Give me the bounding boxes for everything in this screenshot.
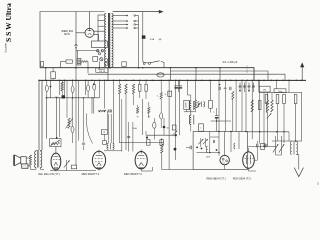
junction dot C5	[93, 83, 95, 85]
junction bus2 d31	[241, 80, 242, 81]
svg-text:Superhet: Superhet	[5, 42, 8, 52]
capacitor C11	[218, 87, 220, 90]
resistor R12 zig	[132, 84, 134, 94]
wire V1 heater lead	[94, 30, 105, 32]
svg-text:x: x	[214, 112, 215, 114]
fuse F3 oval	[153, 122, 156, 128]
wire bus1	[40, 68, 254, 81]
junction bus2 d9	[99, 80, 100, 81]
resistor R24 zig	[266, 100, 268, 112]
resistor R3 zig	[61, 82, 63, 91]
wire drop x283 lower	[283, 104, 285, 144]
wire drop x50	[50, 80, 52, 97]
junction bus1 d6	[142, 67, 144, 69]
resistor R1 box	[66, 60, 72, 63]
junction dot m3	[245, 131, 247, 133]
wire drop x246	[245, 80, 247, 131]
capacitor C9	[189, 146, 191, 150]
wire V4 bottom	[141, 170, 152, 172]
box B7 pm	[199, 124, 204, 131]
wire hline y92.5	[259, 92, 302, 94]
trimmer arrow V2 cathode	[64, 160, 70, 167]
capacitor C18	[256, 144, 258, 148]
junction bus2 d34	[258, 80, 259, 81]
wire hline y121	[211, 120, 232, 122]
box B3 selector	[93, 57, 98, 62]
junction bus2 d7	[85, 80, 86, 81]
capacitor C19	[265, 144, 267, 148]
transformer T6 core	[37, 151, 39, 168]
resistor R33 box	[258, 101, 261, 110]
svg-text:60 W: 60 W	[64, 33, 70, 36]
trimmer arrow O1	[198, 139, 203, 144]
wire drop x264 long	[263, 93, 265, 147]
wire T1 tap 1	[113, 15, 127, 17]
wire drop x179	[179, 80, 181, 135]
wire bus1-bus2 link x196	[195, 68, 197, 75]
svg-text:100Ω: 100Ω	[132, 127, 137, 130]
wire V1 cathode to bus	[75, 48, 77, 68]
wire V1 heater lead 2	[94, 35, 99, 41]
wire drop x99	[99, 80, 101, 97]
capacitor C12	[229, 87, 231, 90]
wire selector stub	[99, 62, 101, 68]
wire osc v1	[209, 132, 211, 147]
wire TKI drop a	[257, 80, 259, 86]
box B8	[261, 143, 265, 149]
wire V3 bottom	[77, 170, 96, 172]
trimmer arrow C21	[279, 144, 284, 153]
junction bus2 d29	[230, 80, 231, 81]
trimmer C14	[239, 83, 241, 93]
wire x289 drop	[288, 132, 290, 141]
resistor R14 box	[145, 84, 147, 91]
junction bus2 d26	[209, 80, 210, 81]
junction bus2 d19	[160, 80, 161, 81]
resistor R20 value box	[184, 100, 189, 109]
junction bus1 d8	[195, 67, 197, 69]
junction bus1 d9	[219, 67, 221, 69]
selector contact S2b	[134, 20, 136, 22]
junction bus2 d5	[72, 80, 73, 81]
junction dot O5	[216, 149, 218, 151]
wire T1 tap 2	[113, 20, 127, 22]
wire T1 primary tap b	[98, 20, 104, 22]
junction bus2 d10	[104, 80, 105, 81]
arrow earth down	[294, 168, 303, 177]
svg-text:S S W Ultra: S S W Ultra	[4, 3, 13, 42]
wire V2 bottom	[44, 168, 56, 170]
wire speaker feed a	[38, 80, 40, 150]
wire V5 bottom	[224, 165, 226, 170]
wire L2 stub	[87, 68, 89, 74]
junction bus1 d7	[170, 67, 172, 69]
wire osc v3	[230, 132, 232, 153]
resistor R23 zig	[232, 92, 234, 100]
resistor R30 corner	[41, 62, 44, 67]
wire V1 grid lead	[76, 32, 85, 34]
wire drop x259 long	[259, 80, 261, 143]
tube V3 pentode	[92, 151, 105, 169]
tube V5 osc triode	[220, 155, 229, 164]
resistor R25 zig	[271, 100, 273, 112]
trimmer C17	[253, 83, 255, 93]
junction dot m2	[230, 131, 232, 133]
capacitor C24	[82, 142, 85, 144]
wire drop x72 lower	[71, 98, 73, 127]
box B2 filter	[92, 41, 108, 48]
wire V6 bottom stub	[249, 170, 257, 172]
wire x121 upper	[121, 99, 123, 140]
box TKI2	[274, 89, 286, 93]
wire L3 nest	[195, 74, 197, 80]
wire x76 to R9	[75, 80, 77, 165]
wire osc h1	[197, 152, 220, 154]
selector contact S2d	[134, 27, 136, 29]
svg-text:RES 3604/T7.2: RES 3604/T7.2	[82, 172, 100, 176]
junction bus2 d15	[133, 80, 134, 81]
svg-text:TKI: TKI	[263, 90, 267, 92]
resistor R26 box	[265, 95, 268, 104]
tube V1 REN904 rectifier	[85, 28, 94, 37]
wire drop x252	[251, 80, 253, 139]
junction bus2 d32	[247, 80, 248, 81]
wire drop x187	[187, 80, 189, 95]
junction bus1 d5	[138, 67, 140, 69]
wire osc h2	[210, 136, 219, 138]
coil L10 osc	[206, 146, 207, 152]
junction bus1 d2	[87, 67, 89, 69]
junction bus2 d6	[75, 80, 76, 81]
svg-text:REN NBO4 (T7.): REN NBO4 (T7.)	[206, 176, 226, 180]
resistor R10 zig	[119, 84, 121, 94]
trimmer arrow R5	[66, 119, 73, 129]
tube V6 rect output	[243, 152, 255, 168]
resistor R21 zig	[194, 100, 196, 109]
svg-text:Anl. 2 400 µF: Anl. 2 400 µF	[223, 61, 238, 64]
trimmer arrow O2	[203, 139, 208, 144]
capacitor C6 tubular	[71, 126, 74, 132]
svg-text:REN 3604/T7.2: REN 3604/T7.2	[124, 172, 142, 176]
wire drop x201	[201, 80, 203, 101]
junction bus2 d36	[271, 80, 272, 81]
wire drop x169	[168, 80, 170, 169]
wire C1 squiggle	[81, 61, 88, 63]
junction bus2 d38	[282, 80, 283, 81]
wire drop x56 lower	[56, 98, 58, 138]
wire x111 drop	[110, 114, 112, 143]
junction bus2 d0	[38, 80, 39, 81]
junction y97 a	[46, 97, 47, 98]
junction dot O7	[218, 152, 220, 154]
junction bus2 d14	[125, 80, 126, 81]
capacitor C1 block	[77, 58, 81, 65]
coil L12 osc fb	[234, 143, 235, 149]
fuse F1	[142, 35, 146, 38]
wire drop x296 lower	[295, 104, 297, 142]
ground arrow G1	[75, 44, 78, 48]
switch S1	[143, 62, 145, 64]
coil L11 ant	[290, 142, 292, 155]
capacitor C4 tubular	[87, 85, 90, 91]
wire hline y108	[184, 111, 196, 113]
resistor R16 tg zig	[148, 107, 150, 113]
junction bus2 d27	[218, 80, 219, 81]
junction x56	[56, 137, 58, 139]
wire hline y141	[272, 140, 302, 142]
capacitor C2 tubular	[45, 85, 48, 91]
wire drop x267 long	[267, 112, 269, 146]
capacitor C8	[110, 110, 112, 113]
selector contact S2a	[134, 15, 136, 17]
switch contact K1b	[101, 50, 104, 53]
wire bus1-bus2 link x76	[75, 68, 77, 81]
coil L6 interstage	[107, 143, 109, 150]
wire drop x301 lower	[301, 93, 303, 142]
wire T1 tap 3	[113, 24, 127, 26]
svg-text:10000: 10000	[186, 103, 188, 108]
junction bus1 d0	[45, 67, 47, 69]
wire T1 primary tap c	[98, 25, 104, 27]
resistor R15 tg zig	[136, 107, 138, 113]
wire hline y135	[146, 134, 176, 136]
wire dashed leader	[246, 66, 248, 74]
junction bus2 d20	[168, 80, 169, 81]
trimmer C16	[248, 83, 250, 93]
junction bus2 d35	[263, 80, 264, 81]
wire drop x93 lower	[93, 98, 95, 114]
wire primary feed	[97, 15, 99, 41]
coil L9 pair	[198, 102, 199, 108]
junction bus2 d17	[145, 80, 146, 81]
wire hline y97.8	[45, 97, 99, 99]
coil L5 pair	[105, 59, 108, 62]
wire fuse drop	[142, 12, 144, 62]
wire drop x277 lower	[277, 104, 279, 142]
wire bus1-bus2 link x45	[45, 68, 47, 81]
junction bus2 d18	[152, 80, 153, 81]
wire arrow stem	[298, 155, 300, 170]
junction bus2 d40	[296, 80, 297, 81]
wire bottom left of box	[162, 169, 193, 171]
junction bus2 d21	[175, 80, 176, 81]
resistor R29 box	[294, 95, 297, 104]
wire bottom link	[276, 154, 282, 156]
junction dot C2	[50, 86, 52, 88]
wire drop x113	[113, 80, 115, 143]
resistor R27 box	[276, 95, 279, 104]
potentiometer P1 box	[50, 139, 61, 147]
capacitor C25 tubular	[160, 113, 163, 119]
resistor R31 bus1 box	[122, 62, 127, 67]
junction bus1 d3	[99, 67, 101, 69]
wire T1 primary tap a	[98, 14, 104, 16]
junction bus2 d30	[235, 80, 236, 81]
wire drop x59 long	[59, 80, 61, 95]
speaker LS magnet	[22, 164, 28, 168]
tube V2 triode	[51, 153, 61, 170]
wire drop x266 lower	[266, 104, 268, 114]
transformer T1 primary winding	[105, 14, 106, 67]
wire drop x225	[225, 80, 227, 131]
wire drop x289	[288, 80, 290, 92]
wire drop x46 lower	[45, 98, 47, 139]
wire stub x128	[128, 140, 130, 151]
wire V5 top lead	[224, 132, 226, 156]
coil L8	[189, 115, 191, 125]
tube V4 pentode	[135, 152, 147, 169]
resistor R13 box	[139, 84, 141, 91]
junction bus2 d13	[119, 80, 120, 81]
wire TKI drop b	[276, 80, 278, 88]
svg-text:tg: tg	[137, 115, 139, 118]
resistor R6 hzig	[99, 110, 106, 112]
wire LB nest	[170, 71, 268, 80]
junction bus2 d1	[45, 80, 46, 81]
transformer T6 output primary	[35, 151, 36, 168]
speaker LS cone	[15, 155, 21, 166]
wire hline y131.8	[248, 131, 290, 133]
wire hline y142.5	[119, 142, 164, 144]
fuse F2 thermal	[157, 73, 164, 77]
resistor R18 zig	[160, 92, 162, 99]
wire drop x264	[263, 80, 265, 90]
junction bus2 d4	[64, 80, 65, 81]
wire curve grid	[86, 114, 92, 144]
wire speaker feed b	[41, 80, 43, 150]
wire drop x119	[119, 80, 121, 84]
junction y97 b	[72, 97, 73, 98]
resistor R17 zig	[161, 144, 163, 153]
resistor R5 zig	[68, 118, 70, 128]
svg-text:1 W. 18: 1 W. 18	[99, 71, 105, 73]
wire drop x236	[235, 80, 237, 131]
electrolytic C13	[215, 115, 218, 117]
svg-text:Valv. Elta 4 W (T7.): Valv. Elta 4 W (T7.)	[38, 172, 60, 176]
junction bus2 d23	[187, 80, 188, 81]
resistor R32 zig	[251, 100, 253, 112]
wire x107 drop	[107, 111, 109, 130]
wire x108 drop	[108, 114, 110, 143]
title SSW Ultra	[4, 3, 13, 42]
junction dot a	[175, 134, 177, 136]
wire L1 switch line	[161, 61, 164, 67]
coil L7	[189, 101, 191, 110]
selector contact S2c	[134, 24, 136, 26]
wire L7L8 link	[190, 110, 192, 115]
box B9	[172, 125, 176, 130]
wire drop x175	[175, 80, 177, 135]
junction dot C11	[219, 84, 221, 86]
wire T6 bottom links	[35, 168, 37, 170]
wire drop x92	[91, 98, 93, 114]
wire drop x67	[66, 80, 68, 118]
wire T1 tap 4	[113, 27, 127, 29]
svg-text:0,5A: 0,5A	[150, 38, 155, 41]
arrow phase up	[301, 67, 303, 81]
resistor R2 interbus	[51, 72, 56, 79]
capacitor C3 tubular	[71, 86, 74, 92]
capacitor C10 electrolytic	[174, 85, 182, 87]
junction bus1 d4	[109, 67, 111, 69]
label box mains switch	[96, 68, 108, 72]
wire x128 upper	[128, 122, 130, 140]
junction dot x147	[146, 136, 148, 138]
transformer T6 secondary	[40, 151, 41, 168]
wire drop x83	[83, 98, 85, 142]
junction bus2 d41	[301, 80, 302, 81]
wire hline y150.8	[104, 150, 122, 152]
wire stub x132	[132, 140, 134, 151]
wire stub x121	[121, 140, 123, 151]
svg-text:(A): (A)	[159, 38, 162, 41]
junction dot O3	[196, 147, 198, 149]
switch contact K1c	[98, 53, 100, 55]
junction dots r6row	[104, 110, 105, 111]
junction bus2 d22	[179, 80, 180, 81]
maker name	[5, 42, 8, 52]
junction dot m1	[218, 131, 220, 133]
wire mains line	[113, 11, 159, 13]
wire hline y146 right	[248, 145, 277, 147]
resistor R7 box	[101, 130, 107, 135]
trimmer arrow P1	[51, 140, 60, 145]
switch contact K1d	[100, 58, 103, 61]
junction bus2 d37	[276, 80, 277, 81]
switch contact K1a	[97, 50, 100, 53]
junction dot O4	[201, 148, 203, 150]
wire c1 down	[87, 62, 89, 68]
resistor R9 box	[71, 165, 76, 169]
junction bus2 d11	[107, 80, 108, 81]
box small B4	[103, 141, 107, 145]
capacitor C7	[107, 110, 109, 113]
wire bus1-bus2 link x108	[107, 68, 109, 81]
wire bus1-bus2 link x220	[219, 68, 221, 81]
wire bus2 main	[39, 79, 306, 81]
transformer T1 secondary winding	[112, 14, 113, 67]
junction bus2 d24	[195, 80, 196, 81]
capacitor C23 dot	[163, 126, 166, 129]
capacitor C5 tubular	[93, 84, 96, 90]
wire osc v4	[238, 132, 240, 150]
trimmer C15	[244, 83, 246, 93]
resistor R4 block	[62, 95, 65, 98]
transformer T1 core	[108, 13, 110, 68]
wire osc v2	[218, 80, 220, 155]
wire selector bus	[138, 16, 140, 68]
wire L2 line	[88, 74, 285, 80]
trimmer arrow C20	[273, 144, 278, 153]
wire drop x104	[104, 80, 106, 108]
wire drop x64	[64, 80, 66, 95]
wire T6 top links	[35, 149, 37, 152]
wire C1 drop	[77, 50, 79, 58]
junction bus2 d25	[201, 80, 202, 81]
wire drop x78	[77, 80, 79, 140]
trimmer arrow B9	[173, 131, 178, 135]
svg-text:16: 16	[167, 128, 169, 130]
resistor R28 box	[283, 95, 286, 104]
junction bus2 d12	[113, 80, 114, 81]
junction bus2 d39	[288, 80, 289, 81]
resistor R11 zig	[125, 84, 127, 94]
box B5	[147, 140, 151, 146]
speaker LS body	[21, 157, 26, 164]
capacitor C22 osc	[212, 140, 214, 143]
resistor R8 hum zig	[29, 155, 31, 166]
junction dot b	[174, 148, 177, 151]
